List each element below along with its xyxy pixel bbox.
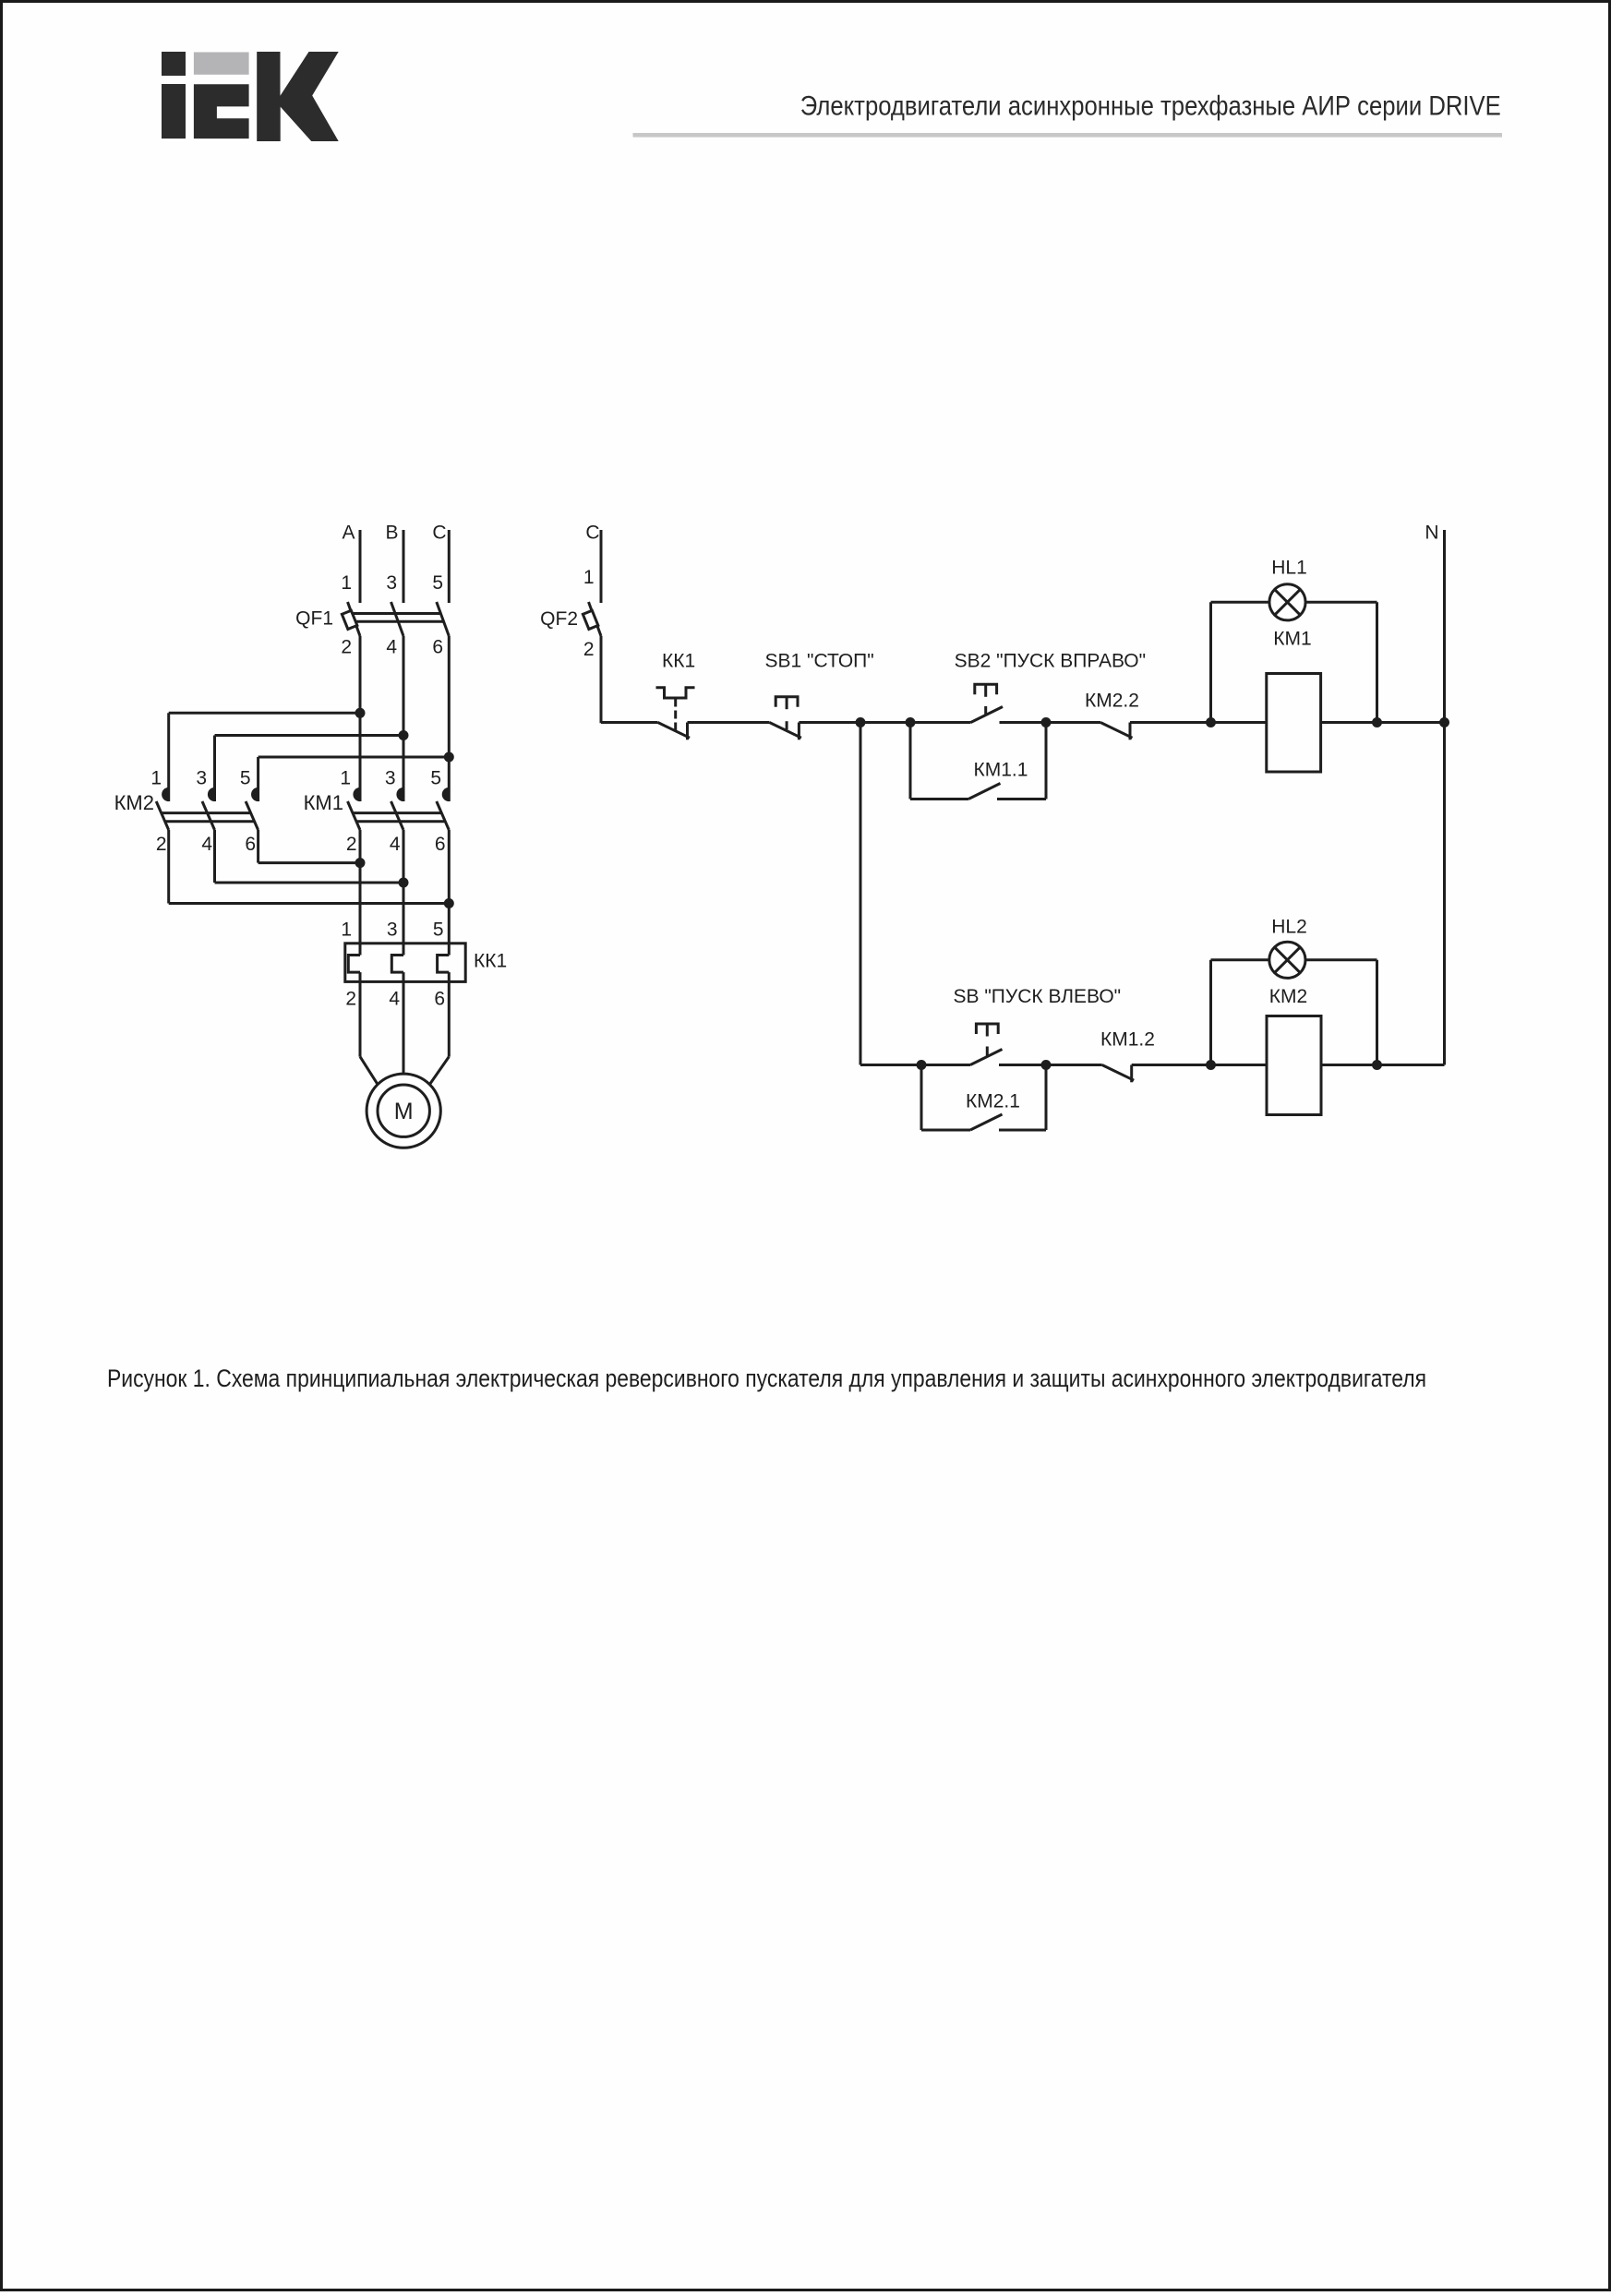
svg-text:2: 2 bbox=[345, 989, 356, 1010]
svg-text:B: B bbox=[385, 523, 398, 544]
svg-text:5: 5 bbox=[433, 920, 444, 941]
contactor KM2 main contacts bbox=[114, 768, 258, 856]
start pushbutton SB (NO) bbox=[954, 986, 1122, 1065]
svg-text:SB "ПУСК ВЛЕВО": SB "ПУСК ВЛЕВО" bbox=[954, 986, 1122, 1007]
svg-text:HL1: HL1 bbox=[1271, 558, 1307, 579]
wire bbox=[999, 1064, 1102, 1066]
wire KM1 pole outputs down to KK1 bbox=[360, 830, 449, 956]
svg-text:Электродвигатели асинхронные т: Электродвигатели асинхронные трехфазные … bbox=[800, 91, 1501, 122]
contactor coil KM1 bbox=[1211, 629, 1377, 773]
svg-text:QF1: QF1 bbox=[295, 608, 333, 630]
svg-text:6: 6 bbox=[432, 637, 443, 658]
node HL2/KM2 left bbox=[1206, 1060, 1216, 1070]
svg-text:N: N bbox=[1425, 523, 1438, 544]
wire KK1 pin 2 to motor bbox=[360, 972, 378, 1085]
KK1 contact gap bbox=[658, 723, 691, 740]
bus B bbox=[385, 523, 403, 604]
stop pushbutton SB1 (NC) bbox=[765, 651, 874, 740]
wire bbox=[1132, 1064, 1211, 1066]
svg-text:SB1 "СТОП": SB1 "СТОП" bbox=[765, 651, 874, 672]
svg-text:2: 2 bbox=[341, 637, 352, 658]
start pushbutton SB2 (NO) bbox=[955, 651, 1146, 723]
svg-text:6: 6 bbox=[245, 834, 256, 855]
junction rung1 / N bbox=[1439, 717, 1449, 727]
svg-text:КК1: КК1 bbox=[662, 651, 695, 672]
svg-text:6: 6 bbox=[435, 834, 446, 855]
junction KM1.1 branch left bbox=[906, 717, 916, 727]
svg-text:4: 4 bbox=[389, 989, 400, 1010]
svg-text:КМ1: КМ1 bbox=[304, 791, 343, 814]
auxiliary contact KM2.1 (NO, latch) bbox=[921, 1065, 1046, 1131]
junction KM2.1 branch left bbox=[917, 1060, 927, 1070]
svg-text:1: 1 bbox=[150, 768, 162, 789]
svg-text:КМ1.1: КМ1.1 bbox=[974, 760, 1028, 781]
svg-text:3: 3 bbox=[196, 768, 207, 789]
svg-text:2: 2 bbox=[156, 834, 167, 855]
node HL1/KM1 left bbox=[1206, 717, 1216, 727]
bus C control bbox=[585, 523, 601, 604]
svg-text:SB2 "ПУСК ВПРАВО": SB2 "ПУСК ВПРАВО" bbox=[955, 651, 1146, 672]
wire bbox=[1130, 721, 1211, 724]
wire QF1 pole B down bbox=[403, 636, 405, 801]
wire to N corner bbox=[1377, 1064, 1445, 1066]
svg-text:4: 4 bbox=[201, 834, 212, 855]
thermal relay contact KK1 (NC) bbox=[656, 651, 696, 731]
svg-text:2: 2 bbox=[583, 639, 595, 660]
svg-text:2: 2 bbox=[346, 834, 357, 855]
circuit breaker QF1 (3-pole) bbox=[295, 572, 449, 658]
contactor KM1 main contacts bbox=[304, 768, 450, 856]
svg-text:1: 1 bbox=[341, 920, 352, 941]
wire KM2 pin 4 to KM1 pin 4 bbox=[215, 830, 409, 888]
interlock contact KM2.2 (NC) bbox=[1085, 691, 1139, 740]
svg-text:4: 4 bbox=[386, 637, 397, 658]
junction to rung 2 bbox=[856, 717, 866, 727]
contactor coil KM2 bbox=[1211, 986, 1377, 1115]
svg-text:5: 5 bbox=[430, 768, 441, 789]
signal lamp HL2 bbox=[1211, 917, 1377, 1065]
svg-text:3: 3 bbox=[385, 768, 396, 789]
junction phase A / wire to KM2 pin 1 bbox=[169, 708, 366, 801]
signal lamp HL1 bbox=[1211, 558, 1377, 723]
svg-text:C: C bbox=[585, 523, 599, 544]
node HL2/KM2 right bbox=[1372, 1060, 1382, 1070]
wire bbox=[688, 721, 770, 724]
wire bbox=[799, 721, 970, 724]
thermal overload relay KK1 bbox=[341, 920, 507, 1010]
bus A bbox=[342, 523, 360, 604]
svg-text:6: 6 bbox=[434, 989, 445, 1010]
svg-text:HL2: HL2 bbox=[1271, 917, 1307, 938]
svg-text:КМ1.2: КМ1.2 bbox=[1100, 1029, 1155, 1051]
bus C bbox=[432, 523, 449, 604]
svg-text:КМ2: КМ2 bbox=[1269, 986, 1307, 1007]
IEK logo bbox=[162, 52, 339, 141]
svg-text:5: 5 bbox=[432, 572, 443, 594]
wire to N bbox=[1377, 721, 1445, 724]
wire KM2 pin 2 to KM1 pin 6 (phase swap) bbox=[169, 830, 454, 908]
svg-text:КК1: КК1 bbox=[474, 951, 507, 972]
junction phase C / wire to KM2 pin 5 bbox=[258, 752, 454, 802]
svg-text:1: 1 bbox=[340, 768, 351, 789]
svg-text:М: М bbox=[394, 1099, 414, 1124]
node HL1/KM1 right bbox=[1372, 717, 1382, 727]
svg-text:КМ1: КМ1 bbox=[1273, 629, 1311, 650]
circuit breaker QF2 bbox=[540, 567, 601, 660]
svg-text:4: 4 bbox=[390, 834, 401, 855]
svg-text:1: 1 bbox=[341, 572, 352, 594]
svg-text:1: 1 bbox=[583, 567, 595, 588]
auxiliary contact KM1.1 (NO, latch) bbox=[910, 717, 1052, 799]
wire KK1 pin 6 to motor bbox=[429, 972, 449, 1085]
wire bbox=[1000, 721, 1101, 724]
svg-text:3: 3 bbox=[387, 920, 398, 941]
svg-text:КМ2: КМ2 bbox=[114, 791, 154, 814]
svg-text:Рисунок 1. Схема принципиальна: Рисунок 1. Схема принципиальная электрич… bbox=[107, 1364, 1426, 1392]
wire KK1 pin 4 to motor bbox=[403, 972, 405, 1074]
svg-text:КМ2.1: КМ2.1 bbox=[966, 1091, 1020, 1112]
svg-text:A: A bbox=[342, 523, 355, 544]
svg-text:3: 3 bbox=[386, 572, 397, 594]
svg-text:КМ2.2: КМ2.2 bbox=[1085, 691, 1139, 712]
rung 2 rail bbox=[860, 1064, 970, 1066]
svg-text:QF2: QF2 bbox=[540, 608, 578, 630]
junction phase B / wire to KM2 pin 3 bbox=[215, 730, 409, 801]
svg-text:5: 5 bbox=[240, 768, 251, 789]
svg-text:C: C bbox=[432, 523, 446, 544]
wire QF1 pole A down bbox=[359, 636, 362, 801]
bus N bbox=[1425, 523, 1444, 1065]
motor M bbox=[367, 1074, 440, 1148]
wire KM2 pin 6 to KM1 pin 2 bbox=[258, 830, 366, 868]
junction KM2.1 branch right bbox=[1041, 1060, 1052, 1070]
wire down to rung 2 bbox=[860, 723, 862, 1065]
interlock contact KM1.2 (NC) bbox=[1100, 1029, 1155, 1083]
wire QF1 pole C down bbox=[448, 636, 451, 801]
wire QF2 to rail 1 bbox=[601, 636, 658, 723]
